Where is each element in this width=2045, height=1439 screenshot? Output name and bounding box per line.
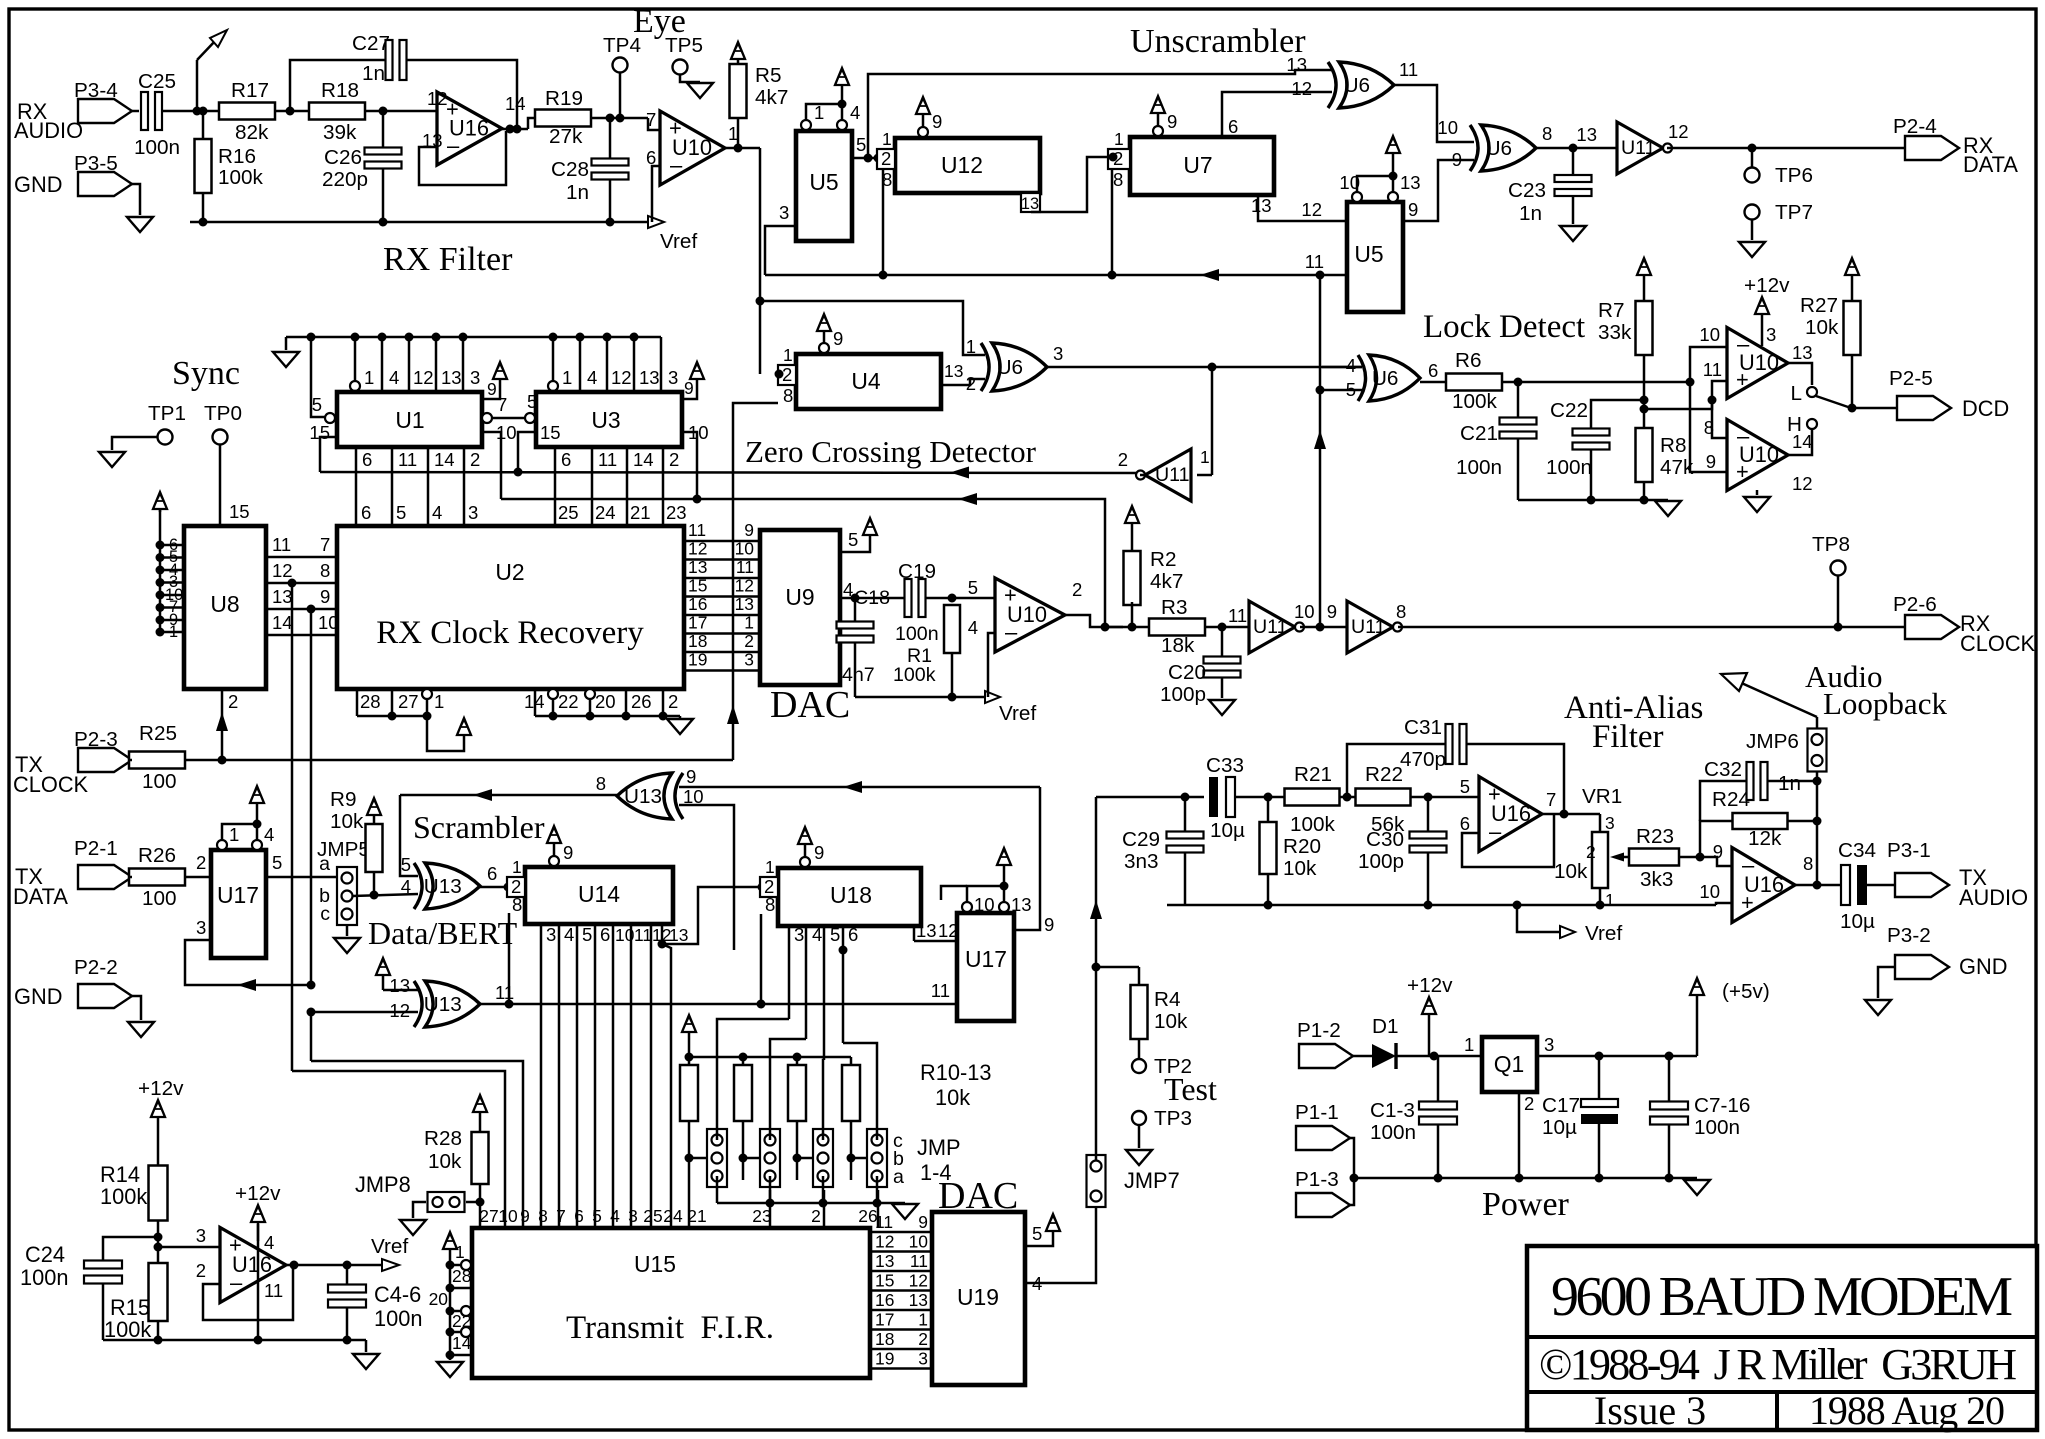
svg-text:C31: C31 bbox=[1404, 716, 1442, 739]
wire R11 leads bbox=[742, 1057, 745, 1065]
svg-text:100n: 100n bbox=[374, 1306, 423, 1331]
power arrow U9 bbox=[869, 534, 872, 545]
svg-text:10k: 10k bbox=[1154, 1010, 1188, 1033]
xor gate U6 zcd bbox=[992, 343, 1047, 391]
svg-text:7: 7 bbox=[497, 394, 507, 415]
svg-text:P3-1: P3-1 bbox=[1887, 839, 1931, 862]
capacitor C29 bbox=[1167, 832, 1204, 839]
connector P1-1 bbox=[1296, 1126, 1350, 1150]
ground JMP8 bbox=[400, 1220, 426, 1235]
svg-text:+12v: +12v bbox=[235, 1182, 281, 1205]
svg-text:TP8: TP8 bbox=[1812, 533, 1850, 556]
svg-text:3: 3 bbox=[794, 924, 804, 945]
svg-text:Vref: Vref bbox=[999, 702, 1036, 725]
ground C20 bbox=[1209, 700, 1235, 715]
junction R21 R22 bbox=[1343, 793, 1352, 802]
power arrow R2 bbox=[1131, 522, 1134, 551]
wire P2-3 R25 bbox=[129, 759, 132, 762]
svg-text:R8: R8 bbox=[1660, 434, 1686, 457]
header JMP6 bbox=[1808, 729, 1827, 772]
svg-text:5: 5 bbox=[848, 529, 858, 550]
wire U8 pin2 bbox=[221, 689, 224, 760]
resistor R16 bbox=[195, 139, 212, 193]
capacitor C24 bbox=[84, 1261, 122, 1269]
svg-text:1: 1 bbox=[512, 857, 522, 877]
svg-text:27: 27 bbox=[398, 691, 419, 712]
test point TP4 bbox=[613, 58, 628, 73]
svg-text:11: 11 bbox=[875, 1212, 893, 1232]
junction TP8 bbox=[1834, 623, 1843, 632]
U15 left tap14 bbox=[450, 1354, 472, 1357]
wire C32 left bbox=[1700, 781, 1746, 821]
capacitor C19 bbox=[905, 579, 912, 617]
wire C17 top lead bbox=[1598, 1056, 1601, 1099]
svg-text:7: 7 bbox=[320, 534, 330, 555]
svg-text:20: 20 bbox=[595, 691, 616, 712]
test point TP0 bbox=[213, 430, 228, 445]
wire txdata jog bbox=[292, 1071, 505, 1228]
svg-text:12: 12 bbox=[1291, 78, 1312, 99]
svg-text:3: 3 bbox=[668, 367, 678, 388]
svg-text:GND: GND bbox=[14, 984, 62, 1009]
wire xorS1 in5 bbox=[400, 795, 418, 876]
wire to TP4 bbox=[619, 73, 622, 118]
svg-text:4: 4 bbox=[1346, 355, 1356, 376]
wire xor2 in12 bbox=[311, 1011, 418, 1014]
pin circle U3 5 bbox=[525, 413, 535, 423]
inverter U11 left bbox=[1145, 449, 1191, 501]
svg-text:9: 9 bbox=[684, 378, 694, 398]
wire R6 out bbox=[1502, 381, 1690, 384]
wire U16aa1 out bbox=[1542, 813, 1600, 816]
svg-text:13: 13 bbox=[272, 586, 293, 607]
U16aa1 feedback bbox=[1462, 814, 1554, 867]
wire to C27 bbox=[290, 60, 386, 111]
svg-text:100k: 100k bbox=[1290, 813, 1336, 836]
junction +12v node bbox=[1430, 1052, 1439, 1061]
rx clock wire left bbox=[1105, 626, 1149, 629]
svg-text:15: 15 bbox=[688, 576, 707, 596]
svg-text:9: 9 bbox=[918, 1212, 928, 1232]
svg-text:16: 16 bbox=[688, 594, 707, 614]
svg-text:+12v: +12v bbox=[138, 1077, 184, 1100]
power arrow R7 bbox=[1643, 274, 1646, 301]
Vref arrow bbox=[648, 216, 664, 228]
junction C18 bbox=[851, 594, 860, 603]
ic U17 second bbox=[957, 913, 1014, 1021]
svg-text:P2-6: P2-6 bbox=[1893, 593, 1937, 616]
svg-text:C22: C22 bbox=[1550, 399, 1588, 422]
junction dcd bbox=[1848, 404, 1857, 413]
U1 bottom stems bbox=[355, 447, 358, 526]
wire C33 out bbox=[1235, 796, 1284, 799]
ic U9 bbox=[760, 530, 840, 685]
svg-text:8: 8 bbox=[1396, 601, 1406, 622]
wire C26 bottom bbox=[382, 169, 385, 222]
svg-text:P1-2: P1-2 bbox=[1297, 1019, 1341, 1042]
svg-text:TP4: TP4 bbox=[603, 34, 641, 57]
svg-text:9: 9 bbox=[520, 1206, 530, 1226]
wire U18 pin8 bbox=[760, 914, 763, 1004]
svg-text:U11: U11 bbox=[1155, 464, 1190, 486]
svg-text:100p: 100p bbox=[1358, 850, 1404, 873]
svg-text:11: 11 bbox=[931, 980, 950, 1001]
Vref rail bbox=[190, 221, 648, 224]
svg-text:9: 9 bbox=[1408, 199, 1418, 220]
svg-text:R24: R24 bbox=[1712, 788, 1750, 811]
svg-text:24: 24 bbox=[663, 1206, 683, 1226]
svg-text:1: 1 bbox=[1605, 890, 1615, 910]
junction C27 branch bbox=[286, 107, 295, 116]
header JMP3 bbox=[813, 1129, 833, 1187]
svg-text:12: 12 bbox=[413, 367, 434, 388]
resistor R13 bbox=[842, 1065, 860, 1121]
svg-text:9: 9 bbox=[932, 111, 942, 132]
wire R20 top bbox=[1267, 797, 1270, 822]
wire R2 bottom bbox=[1131, 602, 1134, 627]
svg-text:GND: GND bbox=[1959, 954, 2007, 979]
svg-text:9: 9 bbox=[487, 379, 497, 399]
title block row separator 2 bbox=[1527, 1390, 2037, 1394]
wire unscrambler top bbox=[868, 70, 1332, 158]
svg-text:14: 14 bbox=[524, 691, 545, 712]
wire xorA out bbox=[1394, 85, 1474, 142]
svg-text:c: c bbox=[320, 903, 330, 925]
wire JMP8 gnd bbox=[413, 1202, 426, 1218]
junction U16c out bbox=[290, 1261, 299, 1270]
capacitor C34 polarized bbox=[1841, 865, 1850, 905]
svg-text:R28: R28 bbox=[424, 1127, 462, 1150]
svg-text:P3-4: P3-4 bbox=[74, 79, 118, 102]
connector P3-5 bbox=[78, 172, 132, 196]
resistor R25 bbox=[129, 752, 185, 769]
junction U4 pin2 bbox=[775, 370, 784, 379]
power arrow U19 bbox=[1052, 1230, 1055, 1240]
svg-text:Scrambler: Scrambler bbox=[413, 809, 545, 845]
power arrow R10-13 bbox=[688, 1031, 691, 1057]
pin circle U3 1 bbox=[548, 381, 558, 391]
svg-text:7: 7 bbox=[1546, 789, 1556, 810]
U1 U3 top bus bbox=[286, 336, 661, 339]
svg-text:5: 5 bbox=[592, 1206, 602, 1226]
U17b pullup bracket bbox=[967, 886, 1004, 902]
wire C30 bottom bbox=[1427, 853, 1430, 905]
junction R11 b bbox=[739, 1154, 748, 1163]
capacitor C18 bbox=[837, 622, 874, 629]
ic U8 bbox=[184, 526, 266, 689]
junction C17 top bbox=[1595, 1052, 1604, 1061]
svg-text:14: 14 bbox=[272, 612, 293, 633]
U15 left bus bbox=[449, 1253, 452, 1360]
wire rx clock out bbox=[1398, 626, 1905, 629]
svg-text:R16: R16 bbox=[218, 145, 256, 168]
pin circle U1 5 bbox=[325, 413, 335, 423]
svg-text:P2-3: P2-3 bbox=[74, 728, 118, 751]
svg-text:2: 2 bbox=[918, 1329, 928, 1349]
svg-text:13: 13 bbox=[1286, 54, 1307, 75]
svg-text:CLOCK: CLOCK bbox=[13, 772, 89, 797]
bus stub U3 p1 bbox=[552, 337, 555, 380]
svg-text:C29: C29 bbox=[1122, 828, 1160, 851]
svg-text:8: 8 bbox=[1803, 853, 1813, 874]
wire TP6 bbox=[1751, 148, 1754, 167]
ground TP7 bbox=[1739, 242, 1765, 257]
svg-text:8: 8 bbox=[1704, 417, 1714, 438]
wire C29 bottom bbox=[1184, 853, 1187, 905]
svg-text:6: 6 bbox=[362, 449, 372, 470]
pin circle U1 7 bbox=[482, 413, 492, 423]
wire U18 pin13 to U17b bbox=[913, 926, 916, 941]
svg-text:1: 1 bbox=[765, 857, 775, 877]
svg-text:RX Clock Recovery: RX Clock Recovery bbox=[376, 615, 644, 651]
pin circle U2 1 bbox=[422, 689, 432, 699]
svg-text:R19: R19 bbox=[545, 87, 583, 110]
U8-U2 row3 bbox=[266, 608, 337, 611]
junction R23 fb bbox=[1696, 853, 1705, 862]
wire C19 to opamp bbox=[926, 597, 995, 600]
ground C23 bbox=[1560, 226, 1586, 241]
pin circles U17a bbox=[217, 840, 227, 850]
svg-text:R5: R5 bbox=[755, 64, 781, 87]
capacitor C25 bbox=[141, 92, 148, 130]
wire C21 top bbox=[1517, 382, 1520, 418]
pin circle U1 1 bbox=[350, 381, 360, 391]
pin circle U18 9 bbox=[800, 857, 810, 867]
junction R5 node bbox=[734, 144, 743, 153]
svg-text:1: 1 bbox=[1464, 1034, 1474, 1055]
svg-text:P3-2: P3-2 bbox=[1887, 924, 1931, 947]
svg-text:R7: R7 bbox=[1598, 299, 1624, 322]
arrow U8 pin2 up bbox=[216, 712, 228, 731]
junction TP6 bbox=[1748, 144, 1757, 153]
svg-text:Unscrambler: Unscrambler bbox=[1130, 23, 1306, 60]
wire U1 pin10 bbox=[482, 432, 501, 499]
svg-text:2: 2 bbox=[196, 1260, 206, 1281]
U9 pin5 stub bbox=[840, 545, 870, 552]
svg-text:TP7: TP7 bbox=[1775, 201, 1813, 224]
resistor R9 bbox=[373, 872, 376, 895]
svg-text:7: 7 bbox=[646, 109, 656, 130]
svg-text:C33: C33 bbox=[1206, 754, 1244, 777]
H circle bbox=[1807, 419, 1817, 429]
junction row3 tap bbox=[307, 605, 316, 614]
wire U9.4 out bbox=[840, 597, 905, 600]
wire inverter out bbox=[1140, 474, 1145, 477]
junction xor2 U14tap bbox=[505, 1000, 514, 1009]
resistor R5 bbox=[730, 64, 747, 118]
txdata vertical a bbox=[291, 583, 294, 1071]
svg-text:13: 13 bbox=[1792, 342, 1813, 363]
xor gate U13 scram2 bbox=[425, 981, 480, 1027]
bus stub U1 p13 bbox=[435, 337, 438, 392]
wire R16 top bbox=[202, 111, 205, 139]
wire U14 pin8 bbox=[508, 913, 511, 1004]
wire R28 bottom bbox=[479, 1184, 482, 1228]
ground lock lower bbox=[1756, 490, 1759, 495]
junction input node bbox=[193, 107, 202, 116]
svg-text:4: 4 bbox=[432, 502, 442, 523]
wire U17a.5 jmp5 bbox=[266, 876, 341, 879]
ic U4 bbox=[796, 354, 941, 409]
svg-text:5: 5 bbox=[582, 924, 592, 945]
wire JMP8 to R28 bbox=[466, 1201, 480, 1204]
junction R20 bbox=[1264, 793, 1273, 802]
wire U3 pin10 bbox=[682, 432, 697, 499]
junction vref div a bbox=[154, 1233, 163, 1242]
ic U5 first bbox=[796, 131, 852, 241]
svg-text:AUDIO: AUDIO bbox=[14, 118, 83, 143]
op-amp U10 lock upper bbox=[1727, 328, 1788, 399]
junction xor2 U18tap bbox=[757, 1000, 766, 1009]
vref gnd rail bbox=[103, 1339, 366, 1342]
vref tap bbox=[1513, 901, 1522, 910]
svg-text:6: 6 bbox=[1228, 116, 1238, 137]
wire R15 bottom bbox=[157, 1321, 160, 1340]
svg-text:CLOCK: CLOCK bbox=[1960, 631, 2036, 656]
svg-text:15: 15 bbox=[875, 1271, 894, 1291]
ic U15 bbox=[472, 1228, 870, 1378]
U15 left tap20 bbox=[450, 1310, 461, 1313]
junction txclock U8 bbox=[218, 756, 227, 765]
U8-U2 row2 bbox=[266, 582, 337, 585]
wire TP0 to U8 bbox=[219, 445, 222, 526]
power arrow R5 bbox=[737, 58, 740, 64]
wire JMP1 a bbox=[716, 1176, 719, 1203]
header JMP7 bbox=[1087, 1155, 1106, 1207]
ground U15 left bbox=[437, 1362, 463, 1377]
svg-text:R10-13: R10-13 bbox=[920, 1060, 992, 1085]
wire C30 top bbox=[1427, 797, 1430, 832]
svg-text:100p: 100p bbox=[1160, 683, 1206, 706]
svg-text:U10: U10 bbox=[672, 135, 712, 160]
svg-text:Vref: Vref bbox=[660, 230, 697, 253]
svg-text:10k: 10k bbox=[330, 810, 364, 833]
wire R12 to U15 bbox=[796, 1158, 799, 1180]
svg-text:18: 18 bbox=[688, 631, 707, 651]
junction C30 bbox=[1424, 793, 1433, 802]
svg-text:H: H bbox=[1787, 413, 1802, 436]
wire rxdata out bbox=[1667, 147, 1905, 150]
svg-text:+12v: +12v bbox=[1407, 974, 1453, 997]
svg-text:11: 11 bbox=[272, 534, 291, 555]
pin circle U14 9 bbox=[549, 856, 559, 866]
svg-text:U16: U16 bbox=[232, 1252, 272, 1277]
svg-text:P2-4: P2-4 bbox=[1893, 115, 1937, 138]
power arrow R27 bbox=[1851, 274, 1854, 301]
capacitor C22 bbox=[1573, 429, 1610, 436]
svg-text:13: 13 bbox=[916, 920, 937, 941]
svg-text:2: 2 bbox=[1118, 449, 1128, 470]
bus stub U3 p13 bbox=[633, 337, 636, 392]
wire txclock bbox=[185, 759, 733, 762]
resistor R19 bbox=[535, 110, 591, 127]
ic U2 bbox=[337, 526, 684, 689]
svg-text:R17: R17 bbox=[231, 79, 269, 102]
svg-text:9: 9 bbox=[1452, 149, 1462, 170]
capacitor C21 bbox=[1500, 418, 1537, 425]
wire JMP4 a bbox=[876, 1176, 879, 1203]
L circle bbox=[1807, 387, 1817, 397]
power arrow U7 bbox=[1157, 112, 1160, 126]
U8 bus rows bbox=[160, 544, 184, 547]
svg-text:U7: U7 bbox=[1183, 152, 1212, 178]
wire R4 stub bbox=[1096, 966, 1139, 969]
U14 pin2 bracket bbox=[507, 877, 525, 897]
wire JMP5 gnd bbox=[346, 925, 349, 936]
svg-text:11: 11 bbox=[1703, 359, 1722, 380]
svg-text:P1-1: P1-1 bbox=[1295, 1101, 1339, 1124]
wire U12.13 to U7.2 bbox=[1031, 157, 1108, 212]
svg-text:8: 8 bbox=[596, 773, 606, 794]
svg-text:10µ: 10µ bbox=[1210, 819, 1245, 842]
power arrow U8 bus bbox=[159, 508, 162, 512]
test point TP5 bbox=[673, 60, 688, 75]
wire C27 to output bbox=[407, 60, 517, 130]
svg-text:27: 27 bbox=[479, 1206, 498, 1226]
svg-text:JMP8: JMP8 bbox=[355, 1172, 411, 1197]
capacitor C4-6 bbox=[328, 1285, 366, 1293]
lock gnd bus bbox=[1518, 499, 1668, 502]
svg-text:+12v: +12v bbox=[1744, 274, 1790, 297]
wire C4-6 bottom bbox=[346, 1308, 349, 1340]
svg-text:12: 12 bbox=[1668, 121, 1689, 142]
wire U7.6 to xor bbox=[1222, 92, 1332, 137]
svg-text:100: 100 bbox=[142, 887, 177, 910]
clock riser wire bbox=[1319, 275, 1322, 627]
wire JMP5 b out bbox=[352, 894, 418, 896]
wire zcd down bbox=[1211, 367, 1214, 475]
connector P2-1 bbox=[78, 865, 132, 889]
svg-text:13: 13 bbox=[441, 367, 462, 388]
svg-text:C19: C19 bbox=[898, 560, 936, 583]
junction R28 bbox=[476, 1198, 485, 1207]
wire P3-5 to ground bbox=[132, 184, 140, 215]
wire C32 right bbox=[1768, 780, 1817, 783]
arrow xorF left bbox=[473, 789, 492, 801]
header JMP5 bbox=[337, 867, 357, 925]
resistor R24 bbox=[1733, 813, 1788, 829]
svg-text:P3-5: P3-5 bbox=[74, 152, 118, 175]
svg-text:3: 3 bbox=[918, 1349, 928, 1369]
U18 bottom stems bbox=[788, 926, 791, 1019]
junction R4 tap bbox=[1092, 963, 1101, 972]
wire R16 bottom bbox=[202, 193, 205, 222]
ground jumpers bbox=[892, 1204, 918, 1219]
svg-text:12: 12 bbox=[427, 88, 448, 109]
test point TP1 bbox=[158, 430, 173, 445]
svg-text:3n3: 3n3 bbox=[1124, 850, 1159, 873]
resistor R14 bbox=[149, 1166, 168, 1221]
svg-text:12: 12 bbox=[611, 367, 632, 388]
resistor R15 bbox=[149, 1263, 168, 1321]
connector P1-3 bbox=[1296, 1193, 1350, 1217]
svg-text:26: 26 bbox=[631, 691, 652, 712]
wire VR1 top bbox=[1599, 814, 1602, 832]
junction clk U7.8 bbox=[1108, 271, 1117, 280]
wire fb up bbox=[1700, 821, 1732, 857]
svg-text:9: 9 bbox=[686, 766, 696, 787]
svg-text:3: 3 bbox=[546, 924, 556, 945]
svg-text:2: 2 bbox=[782, 364, 792, 385]
wire R22 to U16 bbox=[1411, 796, 1479, 799]
svg-text:3: 3 bbox=[1766, 324, 1776, 345]
svg-text:6: 6 bbox=[361, 502, 371, 523]
svg-text:14: 14 bbox=[505, 93, 526, 114]
svg-text:1: 1 bbox=[783, 345, 793, 365]
wire C4-6 top bbox=[346, 1265, 349, 1284]
capacitor C20 bbox=[1204, 657, 1241, 664]
svg-text:15: 15 bbox=[540, 422, 561, 443]
